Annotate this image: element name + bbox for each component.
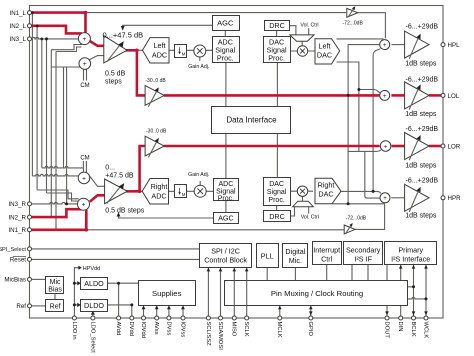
- block SPI I2C Control Block: [200, 244, 252, 268]
- wire PLL to Pin Muxing: [266, 267, 268, 282]
- svg-text:Signal: Signal: [267, 189, 287, 196]
- wire SCLK crossing Pin Muxing box: [246, 281, 248, 306]
- svg-text:Ref: Ref: [16, 303, 26, 310]
- node red junction IN1_L: [84, 11, 88, 15]
- pin IN3_L: [28, 37, 32, 41]
- label decimator top: [179, 47, 181, 52]
- svg-text:1dB steps: 1dB steps: [405, 61, 437, 68]
- label decimator bottom: [179, 188, 181, 193]
- pin SDA/MOSI: [219, 316, 223, 320]
- svg-text:+: +: [83, 61, 87, 68]
- pin WCLK: [424, 316, 428, 320]
- decimation filter bottom: [175, 185, 187, 198]
- svg-text:1dB steps: 1dB steps: [405, 111, 437, 118]
- svg-text:-6...+29dB: -6...+29dB: [406, 76, 439, 83]
- wire BCLK vertical and branch: [407, 264, 413, 318]
- node junction HPR bottom line: [347, 202, 350, 205]
- wire bottom CM horizontal h3 with hops: [42, 166, 84, 168]
- svg-text:BCLK: BCLK: [410, 322, 416, 337]
- node junction BCLK branch: [412, 285, 415, 288]
- summing node HPR mixer: [380, 193, 390, 203]
- svg-text:steps: steps: [105, 79, 122, 86]
- svg-text:Proc.: Proc.: [218, 196, 234, 203]
- svg-text:DAC: DAC: [269, 181, 284, 188]
- wire Interrupt to Pin Muxing: [326, 264, 328, 281]
- wire bus vertical v3 from IN3_L: [41, 39, 43, 168]
- svg-text:Gain Adj.: Gain Adj.: [188, 64, 209, 70]
- wire bottom CM to PGA: [88, 174, 105, 186]
- wire red LOR driver to pin: [429, 145, 442, 148]
- wire IN3_R input with hops: [32, 202, 78, 204]
- wire LDO_Select to DLDO: [92, 311, 94, 318]
- svg-text:AGC: AGC: [218, 214, 234, 223]
- wire bus vertical v2 from IN2_L: [36, 26, 38, 190]
- svg-text:IN1_R: IN1_R: [8, 227, 26, 234]
- wire Data Interface to right ADCSP: [225, 133, 227, 180]
- wire Digital Mic to Pin Muxing: [294, 267, 296, 282]
- svg-text:Proc.: Proc.: [217, 54, 234, 63]
- svg-text:0...: 0...: [105, 165, 115, 172]
- svg-text:CM: CM: [80, 83, 89, 89]
- wire Data Interface to right DACSP: [276, 133, 278, 179]
- wire Reset line: [32, 258, 200, 260]
- svg-text:+: +: [82, 175, 86, 182]
- wire bus vertical v4 from IN3_L junction: [46, 39, 48, 193]
- arrowhead SDA into SPI box: [219, 268, 223, 272]
- decimation filter top: [175, 45, 187, 58]
- block DAC Signal Proc bottom: [264, 178, 291, 206]
- wire bus vertical v1 from IN1_L: [31, 13, 33, 176]
- wire DACSP-DRC connector bottom: [276, 204, 278, 211]
- svg-text:DAC: DAC: [317, 50, 332, 59]
- svg-text:DRC: DRC: [269, 212, 285, 221]
- node red junction PGA bottom output: [138, 190, 142, 194]
- wire ADCSP-AGC connector bottom: [225, 201, 227, 214]
- svg-text:SDA/MOSI: SDA/MOSI: [217, 322, 223, 351]
- node red junction IN1_R: [85, 228, 89, 232]
- node junction IN3_L tap a: [40, 38, 43, 41]
- block Right ADC: [142, 179, 168, 205]
- wire ALDO output to Supplies and AVdd: [108, 283, 139, 318]
- amplifier HPL driver: [405, 31, 429, 58]
- pin IN2_L: [28, 24, 32, 28]
- pin SPI_Select: [28, 247, 32, 251]
- multiplier DAC volume bottom: [297, 186, 307, 196]
- svg-text:Right: Right: [318, 181, 335, 190]
- wire red right mixer to PGA: [90, 195, 105, 202]
- svg-text:Gain Adj.: Gain Adj.: [188, 172, 209, 178]
- pin IN1_R: [28, 228, 32, 232]
- svg-text:LOR: LOR: [448, 143, 461, 150]
- wire Ref pin line: [32, 305, 46, 307]
- svg-text:AGC: AGC: [217, 18, 234, 27]
- arrowhead BCLK down at pin: [412, 311, 416, 315]
- block Mic Bias: [46, 277, 64, 294]
- wire -72dB bottom elbow to HPR mixer: [355, 204, 385, 230]
- wire MISO vertical: [233, 268, 235, 318]
- pin IN1_L: [28, 11, 32, 15]
- svg-text:0.5 dB: 0.5 dB: [105, 71, 126, 78]
- pin LDO_Select: [91, 316, 95, 320]
- block PLL: [257, 244, 279, 268]
- node junction Left DAC to LOL red: [347, 94, 350, 97]
- wire red LOL line: [164, 94, 380, 97]
- wire WCLK vertical and branch with hop: [407, 264, 426, 318]
- wire Vol Ctrl stub bottom: [308, 207, 310, 214]
- svg-text:I²S IF: I²S IF: [354, 254, 372, 263]
- wire AGC-ADCSP connector top: [224, 30, 226, 39]
- wire red LOL mixer to driver: [391, 94, 405, 97]
- block Data Interface: [212, 107, 291, 134]
- svg-text:AVss: AVss: [153, 322, 159, 335]
- node red junction PGA top output: [135, 49, 139, 53]
- svg-text:IN1_L: IN1_L: [9, 10, 26, 17]
- amplifier LOR driver: [405, 133, 429, 160]
- wire gain adj stub bottom: [199, 181, 201, 185]
- amplifier -30dB right: [145, 136, 164, 156]
- arrowhead into DLDO: [77, 303, 81, 307]
- svg-text:1dB steps: 1dB steps: [405, 213, 437, 220]
- pin DOUT: [385, 316, 389, 320]
- wire AGC feedback top: [123, 25, 212, 27]
- summing node CM top: [79, 58, 91, 70]
- svg-text:-6...+29dB: -6...+29dB: [406, 126, 439, 133]
- pin GPIO: [309, 316, 313, 320]
- svg-text:0...+47.5 dB: 0...+47.5 dB: [103, 31, 144, 40]
- svg-text:Left: Left: [319, 41, 331, 50]
- svg-text:-30..0 dB: -30..0 dB: [146, 128, 167, 134]
- pin IN2_R: [28, 215, 32, 219]
- wire IN1_R bypass continuation to -72dB amp: [86, 229, 344, 231]
- pin SCLK: [245, 316, 249, 320]
- wire LDO to ALDO stub: [74, 282, 77, 284]
- pin IOVss: [181, 316, 185, 320]
- block Left DAC: [315, 39, 340, 64]
- wire Right DAC point to HPR mixer: [341, 191, 381, 193]
- svg-text:GPIO: GPIO: [307, 322, 313, 337]
- svg-text:Supplies: Supplies: [152, 289, 182, 298]
- wire left PGA to Left ADC: [127, 49, 144, 51]
- svg-text:Pin Muxing / Clock Routing: Pin Muxing / Clock Routing: [271, 289, 363, 298]
- svg-text:Mic.: Mic.: [289, 256, 302, 265]
- node junction DVdd: [130, 303, 133, 306]
- chip outline border: [30, 6, 444, 319]
- arrowhead IOVdd into Supplies: [142, 306, 146, 310]
- wire AVss to Supplies: [156, 305, 158, 318]
- wire bus vertical v5: [50, 50, 52, 217]
- svg-text:-6...+29dB: -6...+29dB: [406, 24, 439, 31]
- amplifier right PGA: [105, 179, 128, 204]
- svg-text:Data Interface: Data Interface: [226, 115, 277, 124]
- svg-text:-6...+29dB: -6...+29dB: [406, 178, 439, 185]
- summing node right input mixer: [78, 198, 90, 210]
- wire staircase into left mixer s2: [56, 47, 82, 52]
- svg-text:LDO in: LDO in: [71, 322, 77, 340]
- wire bottom CM horizontal h2 with hops: [32, 174, 78, 176]
- svg-text:IN3_R: IN3_R: [8, 201, 26, 208]
- svg-text:LOL: LOL: [448, 93, 460, 100]
- svg-text:DVdd: DVdd: [128, 322, 134, 337]
- block DRC top: [265, 21, 290, 31]
- wire SPI_Select line: [32, 248, 200, 250]
- arrowhead GPIO up: [309, 306, 313, 310]
- wire gain adj stub top: [199, 57, 201, 61]
- wire red IN1_R to right mixer: [32, 209, 87, 230]
- svg-text:Vol. Ctrl: Vol. Ctrl: [300, 23, 318, 29]
- svg-text:+47.5 dB: +47.5 dB: [105, 173, 134, 180]
- wire DRC elbow bottom: [291, 207, 295, 216]
- svg-text:IN3_L: IN3_L: [9, 36, 26, 43]
- svg-text:Proc.: Proc.: [268, 197, 284, 204]
- pin LDO_in: [72, 316, 76, 320]
- block Primary I2S Interface: [385, 242, 437, 265]
- svg-text:Right: Right: [151, 182, 168, 191]
- svg-text:Ref: Ref: [50, 303, 61, 310]
- svg-text:HPL: HPL: [448, 42, 461, 49]
- wire DRC elbow top: [289, 26, 296, 35]
- wire MISO crossing Pin Muxing box: [233, 281, 235, 306]
- arrowhead AVss into Supplies: [155, 306, 159, 310]
- pin Ref: [28, 304, 32, 308]
- wire DACSP to multiplier bottom: [290, 191, 313, 201]
- svg-text:ADC: ADC: [152, 50, 167, 59]
- arrowhead into ALDO: [77, 281, 81, 285]
- svg-text:IOVss: IOVss: [179, 322, 185, 338]
- wire DLDO output to DVdd: [108, 305, 132, 318]
- arrowhead BCLK into Primary box: [412, 265, 416, 269]
- wire HPL mixer stub to vertical vB: [337, 62, 359, 151]
- node junction vB LOL gather: [357, 88, 360, 91]
- arrowhead DOUT down: [385, 311, 389, 315]
- summing node LOL mixer: [380, 90, 390, 100]
- wire ADCSP to Data Interface: [225, 62, 227, 108]
- node junction IN3_R tap: [65, 202, 68, 205]
- pin SCL/SSZ: [206, 316, 210, 320]
- svg-text:Interrupt: Interrupt: [313, 245, 340, 254]
- block Supplies: [139, 281, 196, 306]
- amplifier HPR driver: [405, 184, 429, 211]
- pin AVss: [155, 316, 159, 320]
- arrowhead AGC feedback top: [121, 26, 125, 31]
- mux volume control top: [290, 35, 314, 41]
- node junction AVdd: [117, 282, 120, 285]
- wire Secondary I2S to Pin Muxing a: [351, 264, 353, 281]
- svg-text:-30..0 dB: -30..0 dB: [145, 78, 166, 84]
- svg-text:LDO_Select: LDO_Select: [89, 322, 95, 354]
- wire DACSP to multiplier top: [290, 41, 315, 51]
- block ALDO: [81, 278, 108, 290]
- arrowhead GPIO down: [309, 311, 313, 315]
- pin MicBias: [28, 277, 32, 281]
- svg-text:Vol. Ctrl: Vol. Ctrl: [301, 214, 319, 220]
- wire vertical to HPR hook: [365, 151, 380, 198]
- summing node HPL mixer: [380, 40, 390, 50]
- wire vertical vC: [373, 49, 380, 192]
- multiplier DAC volume top: [297, 46, 307, 56]
- wire DRC-DACSP connector top: [276, 30, 278, 39]
- svg-text:MCLK: MCLK: [276, 322, 282, 338]
- svg-text:+: +: [383, 43, 387, 49]
- svg-text:IN2_L: IN2_L: [9, 23, 26, 30]
- arrowhead IOVss into Supplies: [181, 306, 185, 310]
- svg-text:-72...0dB: -72...0dB: [346, 215, 367, 221]
- wire Left DAC to HPL mixer: [337, 38, 384, 40]
- svg-text:-72...0dB: -72...0dB: [343, 20, 364, 26]
- svg-text:HPR: HPR: [448, 195, 462, 202]
- wire bus vertical v8 pair b: [66, 67, 68, 204]
- wire CM top stub pair: [84, 69, 87, 80]
- summing node left input mixer: [78, 33, 90, 45]
- block Secondary I2S IF: [344, 242, 383, 265]
- wire right PGA to Right ADC: [127, 190, 144, 192]
- pin DVdd: [130, 316, 134, 320]
- block Interrupt Ctrl: [313, 242, 342, 265]
- wire red LOR line: [164, 145, 380, 148]
- amplifier LOL driver: [405, 82, 429, 109]
- svg-text:I²S Interface: I²S Interface: [391, 254, 430, 263]
- arrowhead SCLK into SPI box: [245, 268, 249, 272]
- wire CM top horizontal: [51, 66, 80, 68]
- svg-text:1dB steps: 1dB steps: [405, 163, 437, 170]
- wire SCL/SSZ vertical: [207, 268, 209, 318]
- block Pin Muxing Clock Routing: [225, 281, 408, 306]
- wire DVss to Supplies: [168, 305, 170, 318]
- svg-text:M: M: [182, 51, 186, 56]
- svg-text:DOUT: DOUT: [383, 322, 389, 339]
- wire HPL mixer to driver: [392, 44, 405, 46]
- svg-text:+: +: [82, 202, 86, 209]
- pin BCLK: [412, 316, 416, 320]
- block AGC bottom: [214, 213, 239, 224]
- block ADC Signal Proc top: [213, 37, 240, 63]
- svg-text:SPI / I2C: SPI / I2C: [211, 247, 240, 256]
- block DLDO: [81, 300, 108, 312]
- node junction IN3_L tap b: [45, 37, 48, 40]
- svg-text:+: +: [383, 196, 387, 202]
- arrowhead LDO_Select into DLDO: [91, 311, 95, 315]
- wire Left ADC chain: [169, 49, 213, 51]
- wire bus vertical v6: [55, 52, 57, 230]
- pin HPR: [441, 196, 445, 200]
- svg-text:DLDO: DLDO: [84, 301, 104, 310]
- node junction IN1_L tap: [31, 11, 34, 14]
- wire Vol Ctrl stub top: [308, 28, 310, 35]
- wire -72dB top elbow to HPL mixer: [358, 13, 386, 39]
- amplifier -72dB top bypass: [347, 8, 358, 17]
- amplifier -72dB bottom bypass: [344, 225, 355, 234]
- pin DVss: [167, 316, 171, 320]
- wire IOVss to Supplies: [182, 305, 184, 318]
- wire LOL mixer gather horizontal: [359, 90, 380, 94]
- mux volume control bottom: [293, 201, 314, 207]
- wire GPIO to Pin Muxing: [310, 305, 312, 318]
- svg-text:SCL/SSZ: SCL/SSZ: [205, 322, 211, 347]
- wire red IN2_L step to left mixer: [32, 26, 82, 34]
- pin HPL: [441, 43, 445, 47]
- wire red LOR mixer to driver: [392, 145, 406, 148]
- amplifier left PGA: [104, 36, 127, 63]
- wire Right ADC chain: [169, 190, 215, 192]
- wire Left DAC point elbow vertical vA: [348, 45, 380, 204]
- svg-text:+: +: [383, 94, 387, 100]
- node junction vC Right DAC line: [372, 190, 375, 193]
- pin LOR: [441, 144, 445, 148]
- multiplier gain adj top: [194, 45, 206, 57]
- svg-text:Control Block: Control Block: [204, 255, 247, 264]
- svg-text:HPVdd: HPVdd: [83, 266, 100, 272]
- svg-text:IOVdd: IOVdd: [140, 322, 146, 338]
- arrowhead MCLK up: [278, 306, 282, 310]
- summing node LOR mixer: [380, 141, 391, 152]
- node junction WCLK branch: [425, 297, 428, 300]
- svg-text:Left: Left: [154, 41, 166, 50]
- svg-text:Primary: Primary: [398, 245, 423, 254]
- svg-text:Proc.: Proc.: [268, 54, 285, 63]
- block Right DAC: [315, 178, 341, 204]
- wire IN3_L input with hops: [32, 37, 79, 39]
- arrowhead SCL into SPI box: [207, 268, 211, 272]
- wire MicBias pin line: [32, 278, 46, 280]
- block DRC bottom: [264, 211, 291, 222]
- wire staircase into left mixer s1: [51, 45, 82, 50]
- svg-text:DVss: DVss: [165, 322, 171, 336]
- svg-text:+: +: [384, 144, 388, 150]
- wire red IN2_R step to right mixer: [32, 209, 84, 217]
- arrowhead MISO into SPI box: [233, 268, 237, 272]
- wire Right DAC bottom to HPR mixer: [332, 203, 385, 205]
- block DAC Signal Proc top: [264, 37, 291, 63]
- pin IOVdd: [142, 316, 146, 320]
- pin IN3_R: [28, 202, 32, 206]
- wire IN1_L bypass continuation to -72dB amp: [86, 12, 347, 14]
- pin Reset: [28, 257, 32, 261]
- svg-text:DIN: DIN: [397, 322, 403, 332]
- wire MCLK to Pin Muxing: [279, 305, 281, 318]
- block Digital Mic: [283, 244, 308, 268]
- arrowhead DVss into Supplies: [167, 306, 171, 310]
- wire red left PGA output down to -30dB amp: [126, 50, 146, 95]
- svg-text:Digital: Digital: [285, 247, 305, 256]
- wire CM top to PGA: [89, 56, 105, 60]
- svg-text:DRC: DRC: [269, 21, 285, 30]
- wire LDO in riser and HPVdd: [74, 268, 78, 318]
- node junction LDO DLDO: [73, 303, 76, 306]
- svg-text:Secondary: Secondary: [346, 245, 381, 254]
- arrowhead WCLK into Primary box: [424, 265, 428, 269]
- svg-text:SCLK: SCLK: [243, 322, 249, 337]
- wire DACSP to Data Interface: [276, 62, 278, 108]
- svg-text:M: M: [182, 192, 186, 197]
- arrowhead HPVdd: [78, 266, 81, 270]
- wire Secondary I2S to Pin Muxing b: [367, 264, 369, 281]
- svg-text:ADC: ADC: [219, 181, 234, 188]
- svg-text:SPI_Select: SPI_Select: [0, 247, 26, 253]
- svg-text:PLL: PLL: [261, 251, 274, 260]
- wire red right PGA output up to -30dB amp: [126, 146, 146, 191]
- wire IOVdd to Supplies: [143, 305, 145, 318]
- svg-text:+: +: [83, 36, 87, 43]
- pin MISO: [232, 316, 236, 320]
- svg-text:DAC: DAC: [318, 190, 333, 199]
- wire red left mixer to PGA: [90, 41, 105, 46]
- svg-text:MISO: MISO: [231, 322, 237, 337]
- wire staircase into right mixer s3: [37, 190, 79, 199]
- block Ref: [46, 300, 64, 312]
- wire SDA/MOSI vertical: [220, 268, 222, 318]
- arrowhead DIN into Primary box: [399, 265, 403, 269]
- wire staircase into right mixer s4: [47, 193, 80, 201]
- svg-text:ALDO: ALDO: [84, 279, 104, 288]
